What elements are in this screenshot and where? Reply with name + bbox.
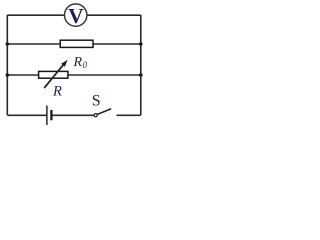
svg-text:S: S: [92, 93, 101, 110]
svg-text:R: R: [52, 83, 62, 99]
svg-text:V: V: [68, 4, 84, 28]
svg-text:R: R: [73, 55, 83, 70]
svg-text:0: 0: [83, 60, 88, 70]
